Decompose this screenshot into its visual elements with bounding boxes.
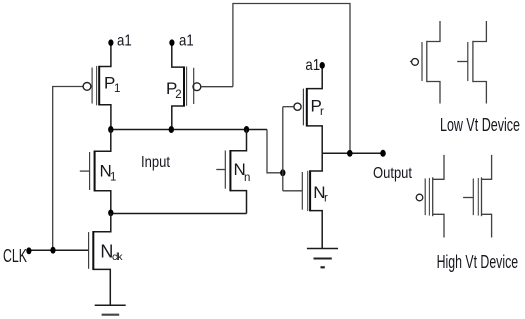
transistor Pr (low-Vt PMOS of output inverter) (283, 65, 322, 153)
legend low-Vt NMOS (457, 21, 486, 104)
ground under Nr (307, 249, 338, 268)
svg-text:Output: Output (373, 165, 412, 182)
transistor N1 (low-Vt NMOS) (80, 130, 111, 214)
node CLK terminal dot (26, 247, 31, 254)
transistor Nr (high-Vt NMOS of output inverter) (283, 153, 322, 248)
svg-text:a1: a1 (179, 33, 194, 50)
node dot N1 source (108, 210, 113, 217)
transistor Nn (low-Vt NMOS) (216, 130, 246, 214)
node a1 dot of P1 (108, 39, 113, 46)
svg-text:2: 2 (175, 89, 181, 101)
wire CLK horizontal to Nclk gate (29, 249, 89, 251)
node dot feedback-output junction (347, 150, 353, 157)
svg-text:a1: a1 (305, 57, 320, 74)
label P2 (166, 79, 182, 101)
svg-text:a1: a1 (117, 33, 132, 50)
wire feedback loop top (233, 4, 350, 154)
svg-text:n: n (244, 172, 250, 184)
wire output (322, 152, 383, 154)
node dot Nn drain (244, 126, 249, 133)
label Pr (311, 97, 325, 118)
label Nr (313, 183, 328, 205)
legend high-Vt NMOS (463, 155, 492, 238)
svg-text:1: 1 (114, 83, 120, 95)
transistor P1 (high-Vt PMOS precharge) (83, 44, 111, 130)
label Nn (234, 160, 251, 184)
node a1 dot of P2 (169, 39, 174, 46)
node dot P2 drain (169, 126, 174, 133)
node dot output terminal (380, 150, 386, 157)
svg-text:Input: Input (141, 154, 170, 171)
transistor Nclk (low-Vt NMOS footer) (89, 213, 111, 305)
node CLK junction dot (50, 247, 55, 254)
svg-text:clk: clk (112, 251, 123, 263)
wire dynamic node to inverter gates (267, 130, 283, 173)
node a1 dot of Pr (320, 62, 325, 69)
wire N1 Nn source node (111, 213, 247, 215)
wire P2 gate to feedback (201, 86, 233, 88)
label Nclk (100, 241, 123, 262)
node dot P1 drain (108, 126, 113, 133)
wire CLK-to-P1-gate left vertical (53, 87, 83, 251)
svg-text:CLK: CLK (3, 246, 27, 266)
label P1 (104, 74, 120, 95)
legend high-Vt PMOS (416, 155, 444, 238)
svg-text:High Vt Device: High Vt Device (437, 251, 518, 272)
svg-text:r: r (324, 193, 328, 205)
label N1 (100, 162, 117, 184)
node dot inverter gate junction (280, 169, 285, 176)
svg-text:1: 1 (110, 172, 116, 184)
svg-text:r: r (320, 106, 324, 118)
svg-text:Low Vt Device: Low Vt Device (440, 114, 520, 135)
ground under Nclk (95, 305, 126, 314)
legend low-Vt PMOS (410, 21, 440, 104)
wire dynamic node (111, 129, 267, 131)
wire inverter gate vertical (282, 107, 284, 191)
transistor P2 (high-Vt PMOS keeper, mirrored) (172, 44, 201, 130)
